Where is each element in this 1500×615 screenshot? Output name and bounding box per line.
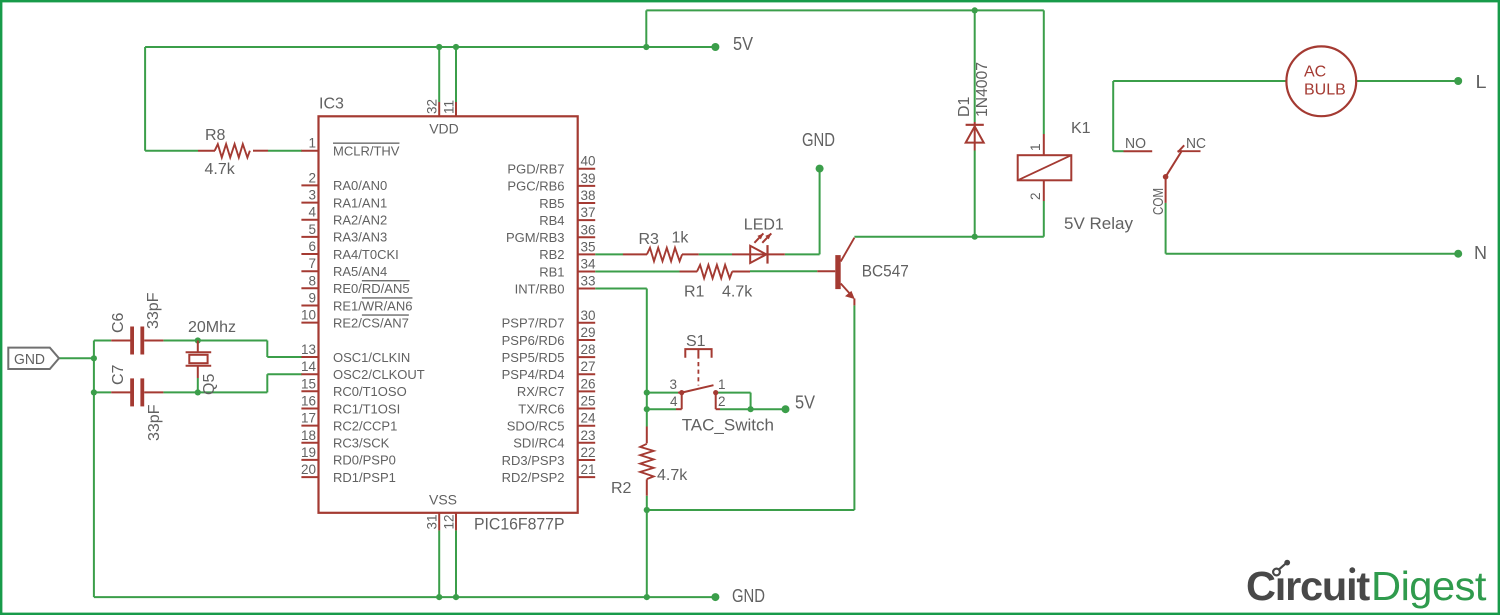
svg-text:2: 2 <box>718 394 726 409</box>
svg-text:18: 18 <box>301 428 316 443</box>
svg-text:12: 12 <box>442 514 457 529</box>
svg-text:24: 24 <box>581 411 597 426</box>
svg-text:3: 3 <box>669 377 677 392</box>
svg-text:31: 31 <box>425 514 440 529</box>
svg-text:RE1/WR/AN6: RE1/WR/AN6 <box>333 298 412 313</box>
svg-text:RD1/PSP1: RD1/PSP1 <box>333 470 396 485</box>
svg-text:AC: AC <box>1304 64 1326 81</box>
svg-text:8: 8 <box>308 273 316 288</box>
svg-text:1: 1 <box>308 136 316 151</box>
svg-text:5V: 5V <box>795 393 815 413</box>
svg-text:13: 13 <box>301 342 316 357</box>
svg-text:22: 22 <box>581 445 596 460</box>
svg-text:21: 21 <box>581 462 596 477</box>
svg-text:GND: GND <box>802 130 835 150</box>
svg-text:RE2/CS/AN7: RE2/CS/AN7 <box>333 315 409 330</box>
svg-text:RA3/AN3: RA3/AN3 <box>333 230 387 245</box>
svg-text:RC1/T1OSI: RC1/T1OSI <box>333 401 400 416</box>
svg-text:GND: GND <box>14 351 45 368</box>
svg-text:MCLR/THV: MCLR/THV <box>333 144 400 159</box>
svg-text:R2: R2 <box>611 480 632 497</box>
svg-text:PSP4/RD4: PSP4/RD4 <box>502 367 565 382</box>
svg-text:33pF: 33pF <box>146 404 163 441</box>
svg-text:D1: D1 <box>956 96 973 117</box>
svg-text:VDD: VDD <box>429 121 459 137</box>
svg-text:TAC_Switch: TAC_Switch <box>682 416 774 435</box>
svg-text:RD3/PSP3: RD3/PSP3 <box>502 453 565 468</box>
svg-text:C7: C7 <box>110 364 127 385</box>
svg-text:R8: R8 <box>205 127 226 144</box>
svg-text:5V: 5V <box>733 34 753 54</box>
svg-text:GND: GND <box>732 586 765 606</box>
svg-text:15: 15 <box>301 376 316 391</box>
svg-text:6: 6 <box>308 239 316 254</box>
svg-text:1k: 1k <box>672 230 690 247</box>
svg-text:32: 32 <box>425 99 440 114</box>
svg-text:VSS: VSS <box>429 492 457 508</box>
svg-text:40: 40 <box>581 154 596 169</box>
svg-text:R3: R3 <box>639 231 660 248</box>
svg-text:NO: NO <box>1125 135 1146 152</box>
svg-text:16: 16 <box>301 394 316 409</box>
svg-text:BULB: BULB <box>1304 82 1346 99</box>
svg-text:2: 2 <box>308 170 316 185</box>
svg-text:BC547: BC547 <box>862 262 909 281</box>
svg-text:30: 30 <box>581 308 596 323</box>
svg-text:39: 39 <box>581 171 596 186</box>
svg-text:20Mhz: 20Mhz <box>188 319 236 336</box>
svg-text:Q5: Q5 <box>201 374 218 395</box>
svg-text:26: 26 <box>581 376 596 391</box>
svg-text:PGM/RB3: PGM/RB3 <box>506 230 565 245</box>
svg-text:COM: COM <box>1150 188 1167 215</box>
svg-text:2: 2 <box>1028 192 1043 200</box>
svg-text:4.7k: 4.7k <box>657 467 688 484</box>
svg-text:37: 37 <box>581 205 596 220</box>
svg-text:17: 17 <box>301 411 316 426</box>
svg-text:RA0/AN0: RA0/AN0 <box>333 178 387 193</box>
svg-text:33pF: 33pF <box>145 292 162 329</box>
svg-text:RD2/PSP2: RD2/PSP2 <box>502 470 565 485</box>
svg-text:RX/RC7: RX/RC7 <box>517 384 565 399</box>
svg-text:IC3: IC3 <box>319 96 344 113</box>
svg-text:RB1: RB1 <box>539 264 564 279</box>
svg-text:C6: C6 <box>110 312 127 333</box>
svg-text:11: 11 <box>442 100 457 114</box>
svg-text:27: 27 <box>581 359 596 374</box>
svg-text:OSC2/CLKOUT: OSC2/CLKOUT <box>333 367 425 382</box>
svg-text:14: 14 <box>301 359 317 374</box>
svg-text:K1: K1 <box>1071 120 1091 137</box>
svg-text:TX/RC6: TX/RC6 <box>518 401 564 416</box>
svg-text:PSP6/RD6: PSP6/RD6 <box>502 333 565 348</box>
svg-text:RB4: RB4 <box>539 213 564 228</box>
svg-text:7: 7 <box>308 256 316 271</box>
svg-text:RD0/PSP0: RD0/PSP0 <box>333 453 396 468</box>
svg-text:35: 35 <box>581 239 596 254</box>
svg-text:RC3/SCK: RC3/SCK <box>333 436 390 451</box>
svg-text:33: 33 <box>581 274 596 289</box>
svg-text:RC0/T1OSO: RC0/T1OSO <box>333 384 407 399</box>
svg-text:4.7k: 4.7k <box>205 161 236 178</box>
svg-text:1N4007: 1N4007 <box>974 62 991 117</box>
svg-text:1: 1 <box>1028 143 1043 151</box>
svg-text:PIC16F877P: PIC16F877P <box>474 515 565 534</box>
svg-text:RE0/RD/AN5: RE0/RD/AN5 <box>333 281 410 296</box>
svg-text:36: 36 <box>581 222 596 237</box>
svg-text:SDO/RC5: SDO/RC5 <box>507 419 565 434</box>
svg-text:NC: NC <box>1186 135 1206 152</box>
svg-text:SDI/RC4: SDI/RC4 <box>513 436 564 451</box>
svg-text:29: 29 <box>581 325 596 340</box>
svg-text:38: 38 <box>581 188 596 203</box>
svg-text:INT/RB0: INT/RB0 <box>515 281 565 296</box>
svg-text:PSP5/RD5: PSP5/RD5 <box>502 350 565 365</box>
svg-text:PSP7/RD7: PSP7/RD7 <box>502 316 565 331</box>
svg-text:RB5: RB5 <box>539 196 564 211</box>
svg-text:20: 20 <box>301 462 316 477</box>
svg-text:10: 10 <box>301 308 316 323</box>
svg-text:19: 19 <box>301 445 316 460</box>
svg-text:5V Relay: 5V Relay <box>1064 214 1133 233</box>
svg-text:RA1/AN1: RA1/AN1 <box>333 195 387 210</box>
svg-text:5: 5 <box>308 222 316 237</box>
svg-text:S1: S1 <box>686 333 706 350</box>
svg-text:4: 4 <box>308 205 316 220</box>
svg-text:1: 1 <box>718 377 726 392</box>
svg-text:23: 23 <box>581 428 596 443</box>
svg-text:RA2/AN2: RA2/AN2 <box>333 213 387 228</box>
svg-text:3: 3 <box>308 188 316 203</box>
svg-text:Digest: Digest <box>1371 563 1487 609</box>
svg-text:9: 9 <box>308 291 316 306</box>
svg-text:28: 28 <box>581 342 596 357</box>
svg-text:N: N <box>1474 243 1487 263</box>
svg-text:RA4/T0CKI: RA4/T0CKI <box>333 247 399 262</box>
svg-text:4.7k: 4.7k <box>722 284 753 301</box>
svg-text:25: 25 <box>581 394 596 409</box>
svg-text:RA5/AN4: RA5/AN4 <box>333 264 387 279</box>
svg-text:4: 4 <box>670 394 678 409</box>
svg-text:34: 34 <box>581 257 597 272</box>
svg-text:PGC/RB6: PGC/RB6 <box>507 179 564 194</box>
svg-text:RC2/CCP1: RC2/CCP1 <box>333 418 397 433</box>
svg-text:L: L <box>1476 72 1487 92</box>
svg-text:R1: R1 <box>684 284 705 301</box>
svg-text:LED1: LED1 <box>744 217 784 234</box>
svg-text:RB2: RB2 <box>539 247 564 262</box>
svg-text:OSC1/CLKIN: OSC1/CLKIN <box>333 350 410 365</box>
svg-text:PGD/RB7: PGD/RB7 <box>507 162 564 177</box>
